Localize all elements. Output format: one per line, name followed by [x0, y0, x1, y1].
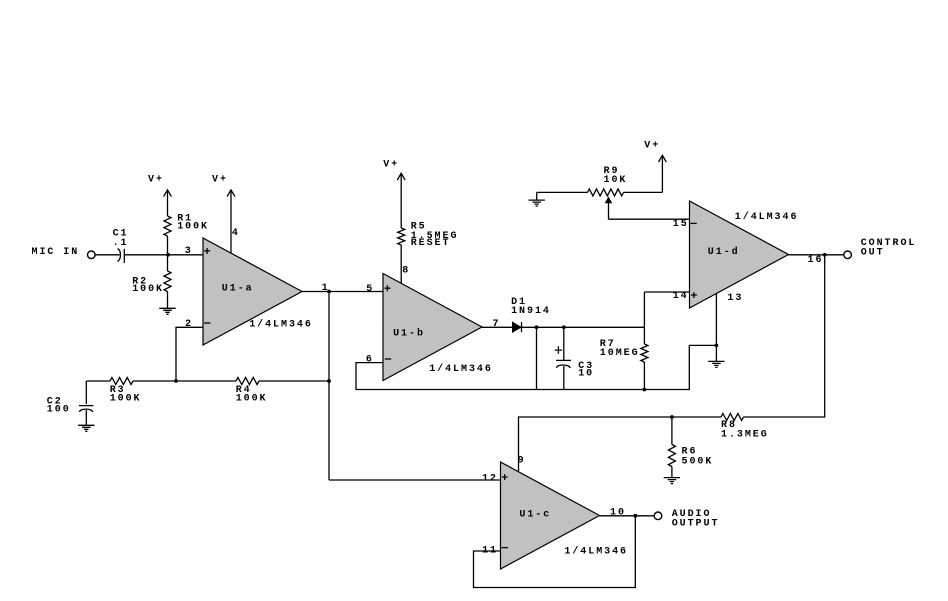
V+ symbol above R1 [148, 175, 171, 197]
svg-text:U1-d: U1-d [708, 246, 740, 258]
wire C1 to pin 3 [124, 254, 203, 256]
node C (R4 right junction) [327, 379, 331, 383]
svg-text:100K: 100K [132, 284, 164, 295]
svg-text:10: 10 [578, 368, 594, 379]
resistor R8 [721, 414, 769, 441]
resistor R4 [236, 378, 268, 405]
svg-text:V+: V+ [644, 141, 660, 152]
svg-text:6: 6 [366, 354, 374, 365]
svg-text:7: 7 [493, 319, 501, 330]
svg-text:9: 9 [518, 455, 526, 466]
node H (control out junction) [823, 253, 827, 257]
node E (C3 top) [562, 325, 566, 329]
ground below R2 [159, 308, 175, 314]
AUDIO OUTPUT terminal [654, 509, 719, 530]
svg-text:5: 5 [366, 284, 374, 295]
svg-text:V+: V+ [148, 175, 164, 186]
svg-text:U1-b: U1-b [393, 328, 425, 340]
svg-text:1N914: 1N914 [511, 306, 551, 317]
svg-text:1.3MEG: 1.3MEG [721, 429, 769, 440]
svg-text:100K: 100K [236, 393, 268, 404]
wire control net down to R8 [744, 255, 825, 417]
node G (pin13 / ground) [715, 344, 719, 348]
svg-text:V+: V+ [383, 159, 399, 170]
CONTROL OUT terminal [844, 238, 917, 258]
svg-text:10MEG: 10MEG [600, 348, 640, 359]
op-amp U1-c [501, 462, 600, 569]
svg-text:12: 12 [482, 474, 498, 485]
pin 13 wire [716, 293, 743, 346]
svg-text:10: 10 [610, 508, 626, 519]
pin 4 supply wire [231, 191, 240, 254]
resistor R5 [398, 174, 459, 284]
svg-text:3: 3 [185, 246, 193, 257]
svg-text:OUTPUT: OUTPUT [672, 519, 720, 530]
wire pin 14 [644, 291, 689, 293]
svg-text:.1: .1 [113, 238, 129, 249]
svg-text:100: 100 [47, 404, 71, 415]
node J (audio out junction) [633, 514, 637, 518]
V+ symbol right of R9 [644, 141, 666, 193]
wire wiper to pin 15 [609, 218, 690, 220]
wire U1-b output to D1 [482, 326, 513, 328]
node I (R6/R8 junction) [670, 415, 674, 419]
wire pin 2 loop [176, 327, 203, 381]
wire D1 to R7 branch [522, 326, 645, 328]
svg-text:4: 4 [232, 228, 240, 239]
svg-text:MIC IN: MIC IN [32, 247, 80, 258]
svg-text:13: 13 [727, 293, 743, 304]
svg-text:14: 14 [673, 291, 689, 302]
svg-text:V+: V+ [212, 175, 228, 186]
potentiometer R9 [537, 166, 663, 219]
node B (R3/R4/pin2 junction) [174, 379, 178, 383]
resistor R1 [164, 191, 209, 255]
svg-text:16: 16 [808, 255, 824, 266]
ground below R6 [664, 478, 680, 484]
svg-text:1/4LM346: 1/4LM346 [564, 546, 628, 558]
resistor R2 [132, 255, 171, 308]
ground left of R9 [529, 192, 545, 206]
wire pin 6 feedback loop [356, 345, 689, 389]
svg-text:OUT: OUT [861, 247, 885, 258]
svg-text:1/4LM346: 1/4LM346 [249, 318, 313, 330]
op-amp U1-a [203, 238, 302, 345]
svg-text:8: 8 [402, 266, 410, 277]
svg-text:100K: 100K [177, 221, 209, 232]
svg-text:1/4LM346: 1/4LM346 [735, 211, 799, 223]
wire pin 11 feedback loop [474, 516, 636, 588]
capacitor C1 [113, 228, 129, 263]
svg-text:10K: 10K [604, 175, 628, 186]
resistor R3 [110, 378, 142, 405]
ground at pin 13 [708, 345, 724, 367]
V+ symbol above pin 4 [212, 175, 235, 197]
wire feedback row [86, 380, 329, 382]
ground below C2 [78, 425, 94, 431]
op-amp U1-b [383, 274, 482, 381]
svg-text:RESET: RESET [411, 238, 451, 249]
capacitor C2 [47, 381, 94, 425]
wire ground riser to pin13 node [689, 344, 716, 346]
wire pin 12 [329, 479, 501, 481]
node A (C1/R1/R2/pin3 junction) [166, 253, 170, 257]
svg-text:15: 15 [673, 219, 689, 230]
op-amp U1-d [690, 201, 789, 308]
MIC IN terminal [32, 247, 96, 258]
diode D1 [511, 297, 551, 332]
node D (D1 cathode / feedback) [535, 325, 539, 329]
wire U1-c output [600, 515, 655, 517]
wire node D down to feedback row [536, 327, 538, 389]
resistor R6 [668, 417, 713, 477]
node F (R7 bottom) [643, 388, 647, 392]
capacitor C3 [555, 327, 594, 389]
svg-text:100K: 100K [110, 393, 142, 404]
wire R8 to R6 node to pin 9 [519, 417, 722, 472]
wire U1-d output [789, 254, 844, 256]
wire MIC IN to C1 [95, 254, 119, 256]
svg-text:500K: 500K [682, 456, 714, 467]
wire output U1-a to U1-b pin 5 [302, 291, 383, 293]
svg-text:U1-c: U1-c [519, 509, 551, 520]
svg-text:U1-a: U1-a [222, 283, 254, 294]
V+ symbol above R5 [383, 159, 405, 180]
resistor R7 [600, 292, 648, 390]
svg-text:1/4LM346: 1/4LM346 [429, 363, 493, 375]
svg-text:2: 2 [185, 319, 193, 330]
node 1 (output U1-a) [327, 290, 331, 294]
wire node1 down to feedback row [328, 292, 330, 481]
